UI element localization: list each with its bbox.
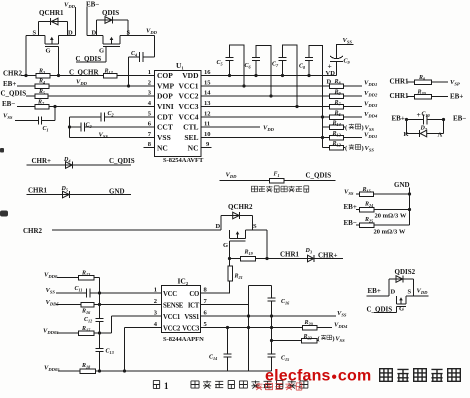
svg-text:R5: R5: [38, 89, 45, 96]
svg-text:VCC2: VCC2: [179, 92, 199, 101]
svg-text:+: +: [417, 110, 421, 119]
svg-text:CHR1: CHR1: [390, 78, 410, 86]
svg-text:VCC4: VCC4: [179, 113, 199, 122]
svg-text:R14: R14: [332, 120, 341, 127]
svg-text:CHR2: CHR2: [3, 69, 23, 77]
svg-text:C4: C4: [131, 51, 137, 58]
svg-text:VCC: VCC: [163, 291, 177, 298]
svg-text:SENSE: SENSE: [163, 302, 184, 309]
svg-text:G: G: [46, 48, 51, 55]
svg-text:QCHR1: QCHR1: [39, 9, 64, 17]
svg-text:D: D: [68, 30, 73, 37]
svg-text:K: K: [404, 131, 409, 138]
svg-text:C10: C10: [422, 112, 431, 119]
svg-text:EB−: EB−: [453, 115, 466, 123]
svg-text:13: 13: [204, 100, 211, 107]
svg-text:CTL: CTL: [183, 123, 198, 132]
svg-text:COP: COP: [157, 71, 173, 80]
svg-text:EB+: EB+: [3, 80, 16, 88]
svg-text:CO: CO: [189, 291, 199, 298]
svg-text:D: D: [216, 223, 221, 230]
svg-text:C6: C6: [245, 63, 252, 70]
svg-text:C9: C9: [344, 59, 351, 66]
svg-text:R18: R18: [81, 363, 91, 370]
svg-text:12: 12: [204, 111, 211, 118]
svg-text:C2: C2: [108, 111, 114, 118]
svg-text:2: 2: [148, 80, 151, 87]
svg-text:C_QDIS: C_QDIS: [76, 55, 102, 63]
svg-text:CHR1: CHR1: [28, 187, 48, 195]
svg-text:R16: R16: [81, 309, 91, 316]
svg-text:1: 1: [148, 69, 151, 76]
svg-text:GND: GND: [109, 187, 125, 195]
svg-text:CDT: CDT: [157, 113, 173, 122]
svg-text:VCC3: VCC3: [179, 102, 199, 111]
svg-text:C_QDIS: C_QDIS: [109, 157, 135, 165]
svg-text:VMP: VMP: [157, 82, 174, 91]
svg-text:(: (: [345, 125, 347, 132]
svg-text:QDIS2: QDIS2: [395, 268, 416, 276]
svg-text:1: 1: [154, 287, 157, 294]
svg-text:VCC3: VCC3: [182, 325, 200, 332]
svg-text:S: S: [408, 289, 412, 296]
svg-text:EB−: EB−: [344, 219, 357, 227]
svg-text:R13: R13: [81, 270, 90, 277]
svg-text:S-8254AAVFT: S-8254AAVFT: [163, 157, 204, 164]
svg-text:C7: C7: [272, 62, 279, 69]
svg-text:CHR1: CHR1: [390, 92, 410, 100]
svg-text:C_QDIS: C_QDIS: [367, 306, 393, 314]
svg-text:EB−: EB−: [86, 1, 99, 9]
svg-text:R6: R6: [334, 110, 342, 117]
svg-text:16: 16: [204, 69, 211, 76]
svg-text:G: G: [399, 306, 404, 313]
svg-text:R3: R3: [38, 68, 45, 75]
svg-text:R12: R12: [104, 68, 113, 75]
svg-text:C_QDIS: C_QDIS: [306, 171, 332, 179]
svg-text:C12: C12: [84, 317, 92, 324]
svg-text:EB+: EB+: [368, 287, 381, 295]
svg-text:G: G: [223, 242, 228, 249]
svg-text:EB+: EB+: [392, 115, 405, 123]
svg-text:15: 15: [204, 80, 211, 87]
svg-text:QDIS: QDIS: [102, 9, 119, 17]
svg-text:): ): [362, 145, 364, 152]
svg-text:): ): [362, 125, 364, 132]
svg-text:R25: R25: [364, 217, 373, 224]
svg-text:R7: R7: [37, 99, 45, 106]
svg-text:2: 2: [154, 298, 157, 305]
svg-text:C14: C14: [209, 354, 217, 361]
svg-text:10: 10: [204, 131, 211, 138]
svg-text:CHR+: CHR+: [318, 252, 338, 260]
svg-text:NC: NC: [188, 144, 199, 153]
svg-text:): ): [332, 335, 334, 342]
svg-text:(: (: [318, 335, 320, 342]
svg-text:VCC1: VCC1: [163, 314, 181, 321]
svg-text:S: S: [127, 30, 131, 37]
svg-text:R19: R19: [244, 250, 254, 257]
svg-text:GND: GND: [394, 181, 410, 189]
svg-text:elecfans●com: elecfans●com: [265, 368, 371, 385]
svg-text:F1: F1: [274, 172, 280, 179]
svg-text:R20: R20: [417, 90, 427, 97]
svg-text:DOP: DOP: [157, 92, 173, 101]
svg-text:R9: R9: [334, 89, 342, 96]
svg-text:EB+: EB+: [344, 203, 357, 211]
svg-text:R8: R8: [418, 75, 426, 82]
svg-text:C1: C1: [43, 126, 49, 133]
svg-text:R4: R4: [38, 79, 45, 86]
svg-text:C15: C15: [281, 355, 289, 362]
svg-text:11: 11: [204, 121, 210, 128]
svg-text:EB+: EB+: [450, 93, 463, 101]
svg-text:VD: VD: [326, 70, 336, 77]
svg-text:20 mΩ/3 W: 20 mΩ/3 W: [374, 229, 406, 236]
svg-text:D: D: [391, 289, 396, 296]
svg-text:C3: C3: [86, 122, 92, 129]
svg-text:C_QCHR: C_QCHR: [69, 69, 100, 77]
svg-text:R13: R13: [332, 131, 341, 138]
svg-text:C_QDIS: C_QDIS: [1, 89, 27, 97]
svg-text:R22: R22: [303, 334, 312, 341]
svg-text:D7: D7: [420, 126, 428, 133]
svg-text:EB−: EB−: [2, 100, 15, 108]
svg-text:SEL: SEL: [184, 133, 198, 142]
svg-text:R15: R15: [362, 187, 371, 194]
svg-text:C5: C5: [217, 60, 223, 67]
svg-text:D3: D3: [305, 248, 312, 255]
svg-text:R24: R24: [364, 202, 373, 209]
svg-text:VDD: VDD: [182, 71, 199, 80]
svg-text:CCT: CCT: [157, 123, 173, 132]
svg-text:A: A: [438, 132, 443, 139]
svg-text:D5: D5: [61, 186, 68, 193]
svg-text:20 mΩ/3 W: 20 mΩ/3 W: [375, 213, 407, 220]
svg-text:NC: NC: [157, 144, 168, 153]
svg-text:S: S: [33, 30, 37, 37]
svg-text:(: (: [345, 145, 347, 152]
svg-text:VINI: VINI: [157, 102, 174, 111]
svg-text:R20: R20: [304, 320, 314, 327]
svg-text:C13: C13: [106, 349, 114, 356]
svg-text:R17: R17: [81, 326, 91, 333]
svg-text:14: 14: [204, 90, 211, 97]
svg-text:CHR+: CHR+: [32, 157, 52, 165]
svg-text:D: D: [327, 78, 332, 85]
svg-text:R21: R21: [234, 274, 243, 281]
svg-text:S: S: [253, 223, 257, 230]
svg-text:CHR2: CHR2: [23, 227, 43, 235]
svg-text:D4: D4: [63, 157, 70, 164]
svg-text:1: 1: [164, 381, 169, 391]
svg-text:VSS: VSS: [157, 133, 171, 142]
svg-text:CHR1: CHR1: [280, 251, 300, 259]
svg-text:C11: C11: [75, 286, 83, 293]
svg-text:QCHR2: QCHR2: [228, 203, 253, 211]
svg-text:R7: R7: [334, 100, 342, 107]
svg-text:ICT: ICT: [188, 302, 200, 309]
svg-text:C8: C8: [299, 64, 306, 71]
svg-text:S-8244AAPFN: S-8244AAPFN: [163, 336, 204, 343]
svg-text:VSS1: VSS1: [184, 314, 200, 321]
svg-text:R12: R12: [332, 141, 341, 148]
svg-text:G: G: [99, 48, 104, 55]
svg-text:VCC1: VCC1: [179, 82, 199, 91]
svg-text:C16: C16: [281, 299, 290, 306]
svg-text:R8: R8: [334, 79, 342, 86]
svg-text:D: D: [92, 30, 97, 37]
svg-text:VCC2: VCC2: [163, 325, 181, 332]
